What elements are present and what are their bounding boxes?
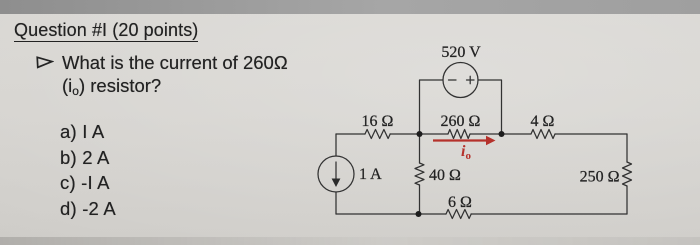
svg-text:40 Ω: 40 Ω <box>429 167 461 184</box>
current arrow i_o (red) <box>433 136 496 145</box>
bottom-left shadow wedge <box>0 237 700 245</box>
voltage source plus sign <box>467 76 475 84</box>
resistor 260 ohm <box>448 130 470 139</box>
wire: voltage source loop left vertical <box>420 80 444 134</box>
resistor 6 ohm <box>446 210 471 219</box>
title: Question #1 (20 points) <box>14 20 198 41</box>
node C (junction dot bottom) <box>416 211 422 217</box>
question line 2 <box>62 75 161 98</box>
wire: bottom horizontal <box>336 213 627 215</box>
node B (junction dot right) <box>499 131 505 137</box>
question line 1 <box>62 52 288 74</box>
resistor 4 ohm <box>531 130 555 139</box>
wire: voltage source loop right vertical <box>478 80 502 134</box>
wire: right vertical <box>626 134 628 214</box>
svg-text:4 Ω: 4 Ω <box>531 113 555 130</box>
wire: left vertical (current source branch) <box>335 134 337 214</box>
resistor 250 ohm (vertical) <box>623 162 632 186</box>
resistor 40 ohm (vertical) <box>415 163 424 185</box>
top gray band <box>0 0 700 14</box>
svg-text:250 Ω: 250 Ω <box>580 169 620 186</box>
node A (junction dot left) <box>417 131 423 137</box>
svg-text:520 V: 520 V <box>441 44 481 61</box>
voltage source minus sign <box>449 79 457 81</box>
bullet arrow <box>36 55 54 69</box>
svg-text:6 Ω: 6 Ω <box>448 194 472 211</box>
svg-text:260 Ω: 260 Ω <box>441 113 481 130</box>
svg-text:16 Ω: 16 Ω <box>362 113 394 130</box>
voltage source V1 circle <box>443 63 478 98</box>
svg-text:1 A: 1 A <box>359 166 382 183</box>
options <box>60 119 116 221</box>
resistor 16 ohm <box>365 130 390 139</box>
svg-text:io: io <box>461 143 471 162</box>
wire: main top horizontal segments <box>336 133 627 135</box>
current source I1 circle <box>318 156 354 192</box>
current source arrow (down) <box>335 162 337 180</box>
wire: 40 ohm middle branch vertical <box>419 134 421 214</box>
